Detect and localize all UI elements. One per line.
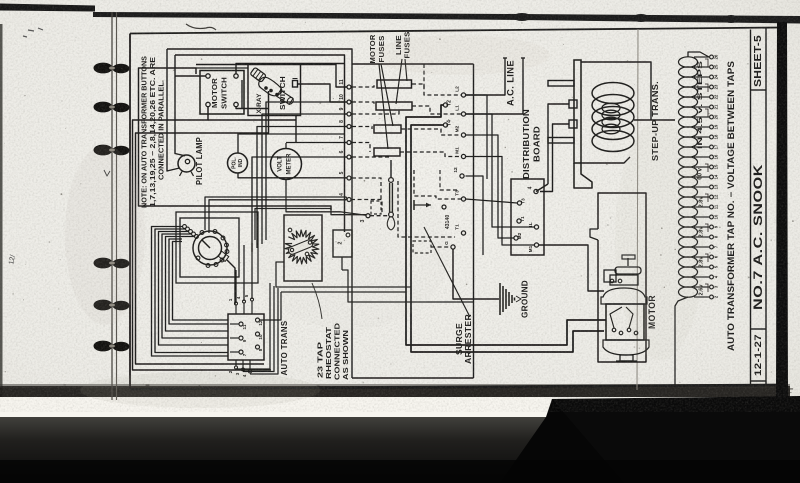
terminal box 2 — [333, 230, 352, 257]
wire big rect around rotary outer — [176, 212, 258, 283]
date box divider — [751, 380, 767, 382]
wire xray box bottom stub — [295, 116, 297, 144]
bus tap terminals 11-3 — [345, 86, 348, 88]
tap chain top hook — [688, 52, 709, 57]
board terminal T1 — [517, 219, 521, 223]
wire pol ind top lead — [238, 134, 345, 153]
specks top-left — [23, 28, 43, 37]
fuse F3 motor fuse — [374, 125, 401, 133]
rheostat box — [284, 215, 322, 281]
rheostat slider arm — [288, 239, 314, 255]
rotary pointer — [202, 240, 210, 248]
bottom speck band above black — [790, 388, 793, 389]
bus terminal 3 — [366, 214, 370, 218]
pilot lamp — [178, 155, 195, 172]
panel enclosure box — [352, 63, 474, 65]
wires bus to meters fan — [266, 102, 347, 240]
dashed cutout branch to T1 — [398, 181, 455, 237]
board terminal M2 — [514, 236, 518, 240]
x-ray switch body — [259, 77, 282, 95]
rotary ring buttons — [200, 231, 204, 235]
x-ray switch terminal clip — [293, 81, 298, 88]
small mark near binder — [104, 170, 110, 176]
motor body — [601, 288, 647, 304]
dashed small box left of cutout — [371, 201, 381, 214]
terminal 4 with switch blade — [534, 189, 538, 193]
cutout top lead — [390, 160, 392, 178]
black scanner background bottom — [0, 396, 800, 483]
auto trans bottom stems — [235, 360, 237, 366]
motor terminals — [612, 328, 616, 332]
rheostat terminals — [288, 228, 292, 232]
terminal G — [451, 245, 455, 249]
rheostat zigzag winding — [285, 230, 319, 264]
wire box2 top — [341, 257, 343, 270]
plate foot bracket — [574, 163, 592, 188]
auto trans box — [228, 314, 264, 360]
tap chain bottom lead — [675, 297, 688, 385]
heavy wire T4 — [443, 123, 447, 127]
wire under motor switch — [208, 119, 296, 121]
long wire run lower B — [281, 291, 406, 293]
heavy wire T2 — [443, 103, 447, 107]
main tap bus vertical — [344, 64, 346, 232]
rheostat leader to label — [312, 283, 322, 319]
motor shaft base — [620, 355, 633, 361]
fuse F1 line fuse — [377, 80, 412, 88]
frame right edge (thick black) — [776, 22, 788, 398]
wire motor switch bottom right — [236, 107, 269, 109]
wire xray blade bottom long loop — [136, 91, 269, 364]
board terminal L1 — [534, 225, 538, 229]
nested L wire bundle rotary to auto-trans — [152, 227, 229, 357]
dashed fuse outputs to terminals — [412, 84, 461, 95]
wire pol ind bottom lead — [238, 173, 347, 178]
wire run to 4 terminal — [205, 197, 348, 230]
wire loop top B — [175, 55, 345, 64]
binder edge lines — [111, 12, 113, 400]
step-up transformer mounting plate — [574, 60, 581, 163]
snook box divider top — [751, 328, 767, 330]
binder rings — [94, 63, 130, 74]
x-ray switch barrel cap — [250, 67, 266, 82]
dashed from bus 3 to cutout — [370, 215, 388, 217]
ground symbol — [499, 283, 501, 315]
wire loop rect around rotary — [180, 218, 239, 277]
thermal cutout teardrop — [389, 178, 394, 183]
rotary selector knob — [199, 237, 222, 260]
HV bushing bar lower — [548, 138, 574, 144]
primary terminal lower — [569, 120, 577, 128]
title column rules — [750, 30, 752, 387]
fuse F4 motor fuse — [374, 148, 400, 156]
white strip below page — [0, 397, 552, 417]
wire loop top A — [167, 49, 352, 64]
photocopy tone blotches — [65, 145, 145, 325]
x-ray switch handle — [277, 90, 295, 105]
wire L1 terminal to board — [466, 114, 535, 227]
A.C. line wire 1 — [503, 57, 507, 59]
volt meter leads — [285, 143, 287, 149]
wire loop top C — [196, 65, 347, 88]
auto trans left terminals — [239, 322, 243, 326]
motor brush assembly — [610, 275, 638, 285]
fuse F2 line fuse — [376, 102, 412, 110]
wire pilot lamp leads — [175, 55, 185, 156]
step-up coil main loops — [592, 83, 634, 104]
page bottom edge shadow band — [0, 386, 790, 397]
primary terminal upper — [569, 100, 577, 108]
dashed branch to T3 — [414, 170, 461, 199]
distribution board box — [511, 179, 544, 255]
wire M1 to motor top — [539, 245, 605, 291]
drawing frame border — [129, 34, 131, 390]
wire bus 10 left — [262, 114, 347, 244]
panel terminal column circles L2 L1 M2 M1 12 T3 T1 G — [461, 93, 465, 97]
wires auto trans bottom to rheostat — [236, 283, 270, 369]
wire motor switch top right stem — [236, 64, 345, 74]
auto trans top stems — [235, 305, 237, 314]
motor switch box — [200, 71, 244, 115]
crease mark top — [186, 24, 216, 30]
dashed vertical mid panel — [423, 64, 425, 88]
wire 12 terminal right — [466, 176, 484, 255]
wire L2 terminal to board top — [466, 95, 488, 179]
wires bus left runs — [257, 127, 347, 249]
wire coil to tap chain — [634, 119, 651, 121]
brace ticks between taps — [705, 59, 708, 67]
begin inked drawing group — [130, 22, 788, 398]
x-ray switch box — [248, 64, 301, 116]
rotary selector outer ring — [193, 231, 227, 265]
wire motor switch left terminal — [175, 75, 206, 77]
wire G to ground — [453, 249, 499, 299]
page crease line — [637, 29, 638, 390]
wire M1 terminal to board — [466, 157, 535, 246]
rotary button diagonal row — [183, 225, 187, 229]
dashed from bus 4 terminal — [351, 200, 382, 215]
wires terminal column to board — [466, 199, 518, 203]
board terminal M1 — [534, 243, 538, 247]
wires auto trans right terminals — [260, 292, 282, 320]
dashed wiring fuse panel — [352, 84, 374, 87]
HV bushing bar upper — [548, 81, 574, 87]
sheet-5 divider — [751, 89, 767, 91]
scan top edge line (underlying page) — [0, 4, 95, 12]
wires distribution board to step-up primary — [548, 104, 569, 184]
tap terminals with circles — [694, 56, 709, 58]
wire x-ray terminal to bus — [298, 84, 346, 102]
rotary contact slider — [218, 251, 229, 261]
board terminal T3 — [517, 201, 521, 205]
auto trans right terminals — [256, 318, 260, 322]
surge arrester leader line — [424, 227, 470, 317]
wires auto trans top stems upward — [235, 270, 237, 303]
paper speckles — [509, 28, 512, 31]
step-up inner coil loops — [602, 103, 620, 113]
surge gap arrow symbol — [413, 200, 415, 210]
wire loop around motor switch region — [196, 67, 248, 69]
leader lines fuse labels — [381, 64, 393, 126]
motor enclosure box — [598, 193, 646, 362]
motor switch terminals — [206, 74, 210, 78]
wire outer loop left — [139, 68, 332, 210]
wire run to 3 terminal — [255, 209, 366, 241]
step-up enclosure outline — [581, 62, 651, 120]
wire M2 terminal to board — [466, 135, 515, 238]
page top edge — [93, 12, 800, 24]
auto transformer winding coil chain — [679, 57, 698, 67]
polarity indicator — [228, 153, 248, 173]
wire motor switch bottom into left loop — [133, 107, 272, 370]
pilot lamp base — [180, 172, 183, 177]
A.C. line wire 2 — [521, 57, 525, 59]
long wire run lower A — [276, 262, 411, 287]
dashed component bottom — [413, 241, 431, 253]
left scan edge — [0, 24, 3, 404]
motor switch inner wire — [241, 80, 243, 109]
volt meter — [271, 149, 302, 180]
